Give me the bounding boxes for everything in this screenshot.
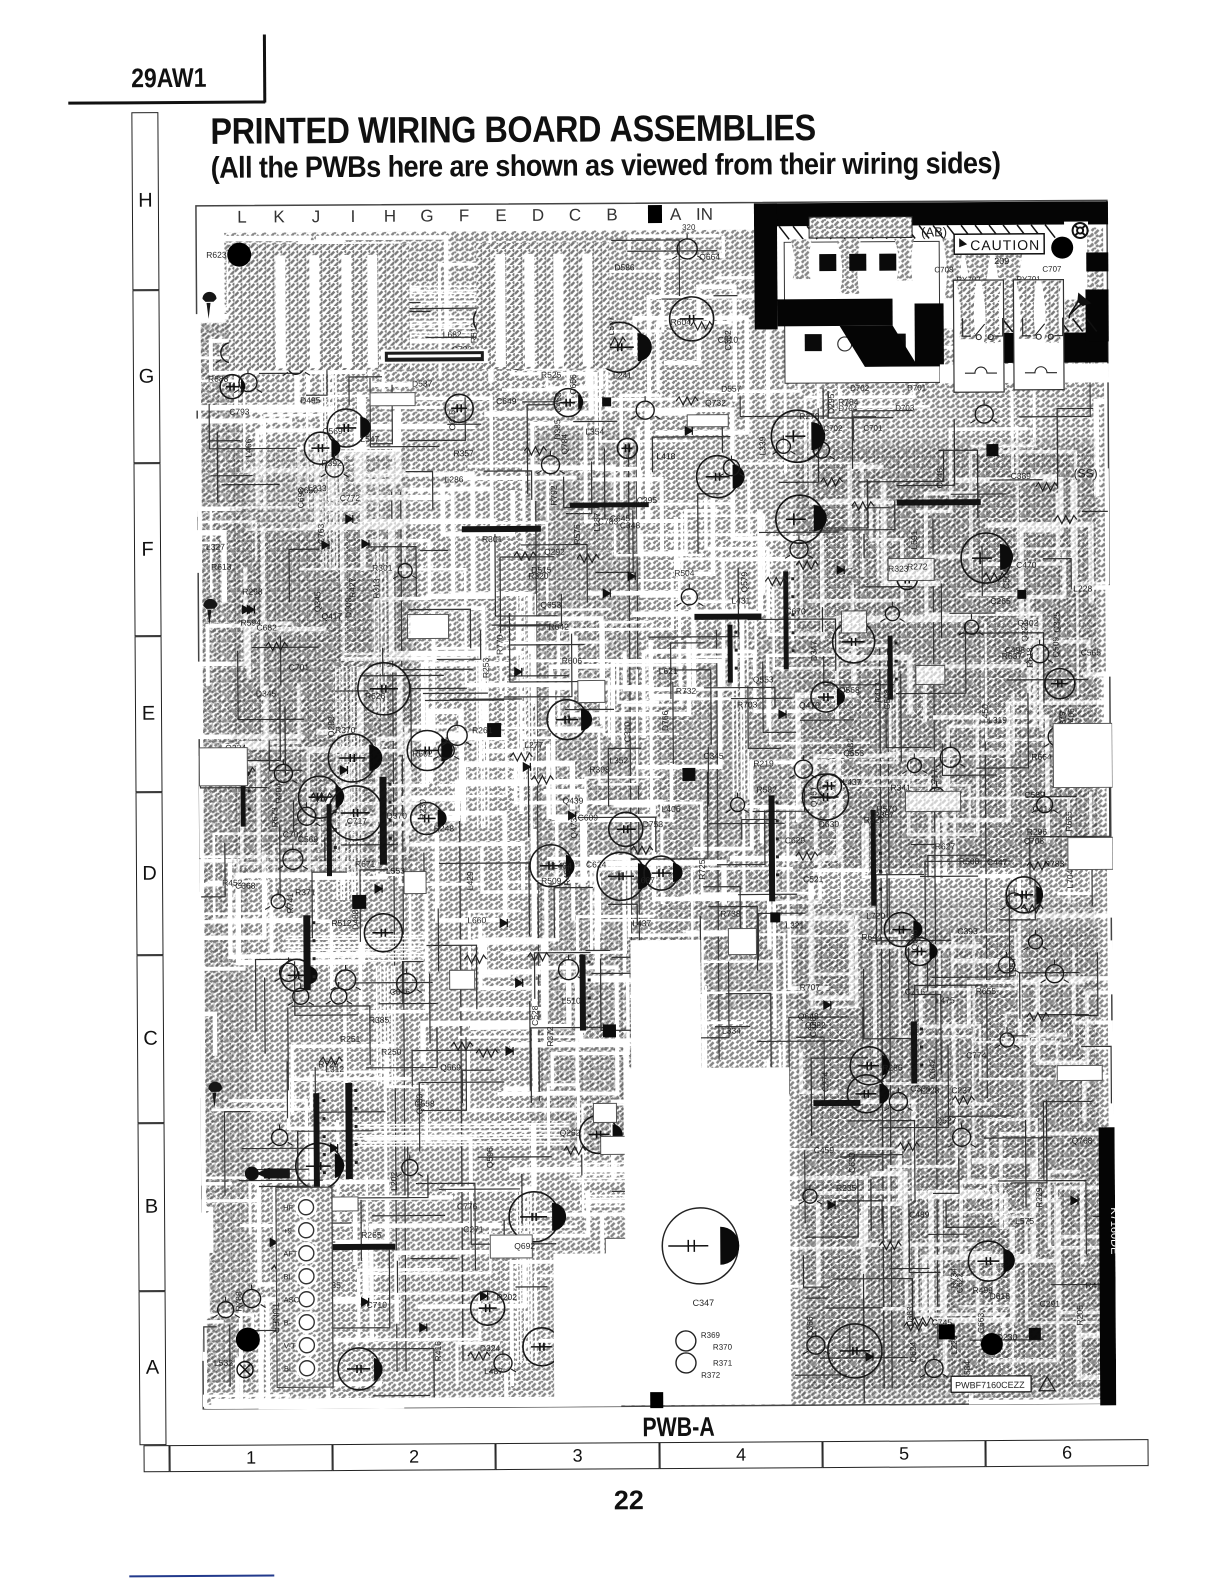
svg-text:F: F xyxy=(459,206,470,225)
svg-text:C569: C569 xyxy=(322,426,343,436)
svg-text:R725: R725 xyxy=(318,1059,339,1069)
svg-text:R623: R623 xyxy=(206,250,227,260)
svg-text:Q596: Q596 xyxy=(485,1147,495,1168)
svg-text:D488: D488 xyxy=(350,909,360,930)
svg-text:R602: R602 xyxy=(412,748,433,758)
svg-text:L354: L354 xyxy=(585,426,604,436)
svg-text:R261: R261 xyxy=(472,725,493,735)
svg-text:C609: C609 xyxy=(578,812,599,822)
svg-text:ASC: ASC xyxy=(284,1295,300,1304)
svg-text:B-: B- xyxy=(284,1318,292,1327)
svg-text:V-T: V-T xyxy=(284,1341,296,1350)
svg-text:C701: C701 xyxy=(863,424,883,433)
svg-text:L352: L352 xyxy=(609,755,628,765)
svg-text:A: A xyxy=(670,205,682,224)
svg-text:Q579: Q579 xyxy=(739,571,749,592)
svg-text:+9: +9 xyxy=(283,1226,292,1235)
svg-text:D701: D701 xyxy=(907,383,927,392)
svg-text:Q439: Q439 xyxy=(563,796,584,806)
svg-text:(SS): (SS) xyxy=(1074,466,1098,480)
svg-text:C707: C707 xyxy=(1042,265,1062,274)
svg-text:C783: C783 xyxy=(598,516,619,526)
svg-text:R576: R576 xyxy=(572,524,582,545)
svg-text:R452: R452 xyxy=(222,878,243,888)
svg-text:C347: C347 xyxy=(693,1298,715,1308)
svg-text:HF: HF xyxy=(283,1203,293,1212)
svg-text:R525: R525 xyxy=(541,370,562,380)
svg-text:R369: R369 xyxy=(701,1331,721,1340)
svg-text:R357: R357 xyxy=(453,448,474,458)
svg-text:L286: L286 xyxy=(445,474,464,484)
svg-text:L431: L431 xyxy=(731,596,750,606)
svg-text:R219: R219 xyxy=(753,758,774,768)
svg-text:R250: R250 xyxy=(381,1047,402,1057)
svg-text:C793: C793 xyxy=(229,407,250,417)
svg-text:G: G xyxy=(420,206,433,225)
svg-text:L621: L621 xyxy=(659,666,678,676)
svg-text:R606: R606 xyxy=(562,656,583,666)
svg-text:D586: D586 xyxy=(614,262,635,272)
svg-text:R703: R703 xyxy=(737,699,758,709)
svg-text:C382: C382 xyxy=(723,330,733,351)
svg-text:C558: C558 xyxy=(414,1098,435,1108)
svg-text:R248: R248 xyxy=(434,823,455,833)
svg-text:R371: R371 xyxy=(295,887,316,897)
svg-text:209: 209 xyxy=(994,256,1009,266)
svg-text:L202: L202 xyxy=(389,1171,399,1190)
svg-text:R582: R582 xyxy=(756,784,777,794)
svg-text:R688: R688 xyxy=(208,374,229,384)
svg-text:R230: R230 xyxy=(418,799,428,820)
svg-text:R732: R732 xyxy=(676,686,697,696)
svg-text:C710: C710 xyxy=(367,1300,388,1310)
svg-text:L406: L406 xyxy=(662,804,681,814)
svg-text:D324: D324 xyxy=(480,1343,501,1353)
svg-text:L484: L484 xyxy=(553,861,572,871)
svg-text:R504: R504 xyxy=(674,568,695,578)
svg-text:C521: C521 xyxy=(803,874,824,884)
svg-text:C395: C395 xyxy=(637,495,658,505)
svg-text:BL: BL xyxy=(283,1272,292,1281)
svg-text:L687: L687 xyxy=(636,875,655,885)
svg-text:E: E xyxy=(495,206,506,225)
svg-text:R788: R788 xyxy=(234,1291,244,1312)
svg-text:L660: L660 xyxy=(467,915,486,925)
svg-text:C: C xyxy=(569,206,581,225)
svg-text:L327: L327 xyxy=(206,542,225,552)
svg-text:L339: L339 xyxy=(757,436,767,455)
svg-text:D537: D537 xyxy=(412,378,433,388)
svg-text:C271: C271 xyxy=(463,1224,484,1234)
svg-text:D766: D766 xyxy=(660,710,670,731)
svg-text:C615: C615 xyxy=(447,410,457,431)
svg-text:C646: C646 xyxy=(390,987,411,997)
svg-text:Q553: Q553 xyxy=(753,674,774,684)
svg-text:R792: R792 xyxy=(549,485,559,506)
svg-text:Q664: Q664 xyxy=(699,252,720,262)
svg-text:D385: D385 xyxy=(552,419,562,440)
svg-text:K7160DE: K7160DE xyxy=(1108,1207,1116,1254)
svg-text:C624: C624 xyxy=(586,859,607,869)
svg-text:L418: L418 xyxy=(656,451,675,461)
svg-text:L: L xyxy=(237,208,247,227)
svg-text:R725: R725 xyxy=(697,859,707,880)
svg-text:L532: L532 xyxy=(214,1358,233,1368)
svg-text:R770: R770 xyxy=(495,634,505,655)
svg-text:R251: R251 xyxy=(340,1034,361,1044)
svg-text:C776: C776 xyxy=(457,1201,478,1211)
svg-text:R202: R202 xyxy=(497,1292,518,1302)
svg-text:PWBF7160CEZZ: PWBF7160CEZZ xyxy=(955,1380,1025,1390)
svg-text:R738: R738 xyxy=(720,909,741,919)
svg-text:D557: D557 xyxy=(721,384,742,394)
svg-text:L437: L437 xyxy=(632,918,651,928)
svg-text:C708: C708 xyxy=(934,265,954,274)
svg-text:K: K xyxy=(273,207,285,226)
svg-text:J: J xyxy=(312,207,321,226)
svg-text:R642: R642 xyxy=(548,622,569,632)
svg-text:Q732: Q732 xyxy=(705,398,726,408)
svg-text:C528: C528 xyxy=(530,1005,540,1026)
svg-text:D703: D703 xyxy=(895,404,915,413)
svg-text:R372: R372 xyxy=(701,1371,721,1380)
svg-text:Q292: Q292 xyxy=(544,547,565,557)
svg-text:L429: L429 xyxy=(465,871,475,890)
svg-text:L241: L241 xyxy=(613,370,632,380)
svg-text:Q473: Q473 xyxy=(569,818,579,839)
svg-text:I: I xyxy=(351,207,356,226)
svg-text:C649: C649 xyxy=(496,396,517,406)
svg-text:L510: L510 xyxy=(562,996,581,1006)
svg-text:R385: R385 xyxy=(369,1015,390,1025)
svg-text:C345: C345 xyxy=(703,751,724,761)
svg-text:D704: D704 xyxy=(838,404,858,413)
svg-text:R509: R509 xyxy=(541,876,562,886)
svg-text:C468: C468 xyxy=(553,392,563,413)
svg-text:R301: R301 xyxy=(482,534,503,544)
svg-text:R416: R416 xyxy=(433,1341,443,1362)
svg-text:TUNER: TUNER xyxy=(271,1302,281,1334)
svg-text:C310: C310 xyxy=(622,722,632,743)
svg-text:D495: D495 xyxy=(300,395,321,405)
svg-text:B: B xyxy=(606,205,617,224)
svg-text:D702: D702 xyxy=(850,384,870,393)
svg-text:L547: L547 xyxy=(360,434,379,444)
svg-text:Q262: Q262 xyxy=(560,1128,581,1138)
svg-text:Q569: Q569 xyxy=(440,1062,461,1072)
svg-text:L704: L704 xyxy=(1065,869,1075,888)
svg-text:D: D xyxy=(532,206,544,225)
svg-text:C348: C348 xyxy=(620,520,641,530)
svg-text:R253: R253 xyxy=(481,658,491,679)
svg-text:AFT: AFT xyxy=(283,1249,298,1258)
svg-text:(AB): (AB) xyxy=(921,224,947,239)
svg-text:H: H xyxy=(384,207,396,226)
svg-text:BL: BL xyxy=(284,1364,293,1373)
svg-text:R604: R604 xyxy=(671,317,692,327)
svg-text:C656: C656 xyxy=(568,374,578,395)
svg-text:R370: R370 xyxy=(713,1343,733,1352)
svg-text:R371: R371 xyxy=(713,1359,733,1368)
svg-text:320: 320 xyxy=(682,223,696,232)
svg-text:R265: R265 xyxy=(361,1230,382,1240)
svg-text:Q692: Q692 xyxy=(514,1241,535,1251)
svg-text:R372: R372 xyxy=(545,1026,555,1047)
svg-text:R741: R741 xyxy=(285,893,295,914)
svg-text:Q653: Q653 xyxy=(540,600,561,610)
svg-text:D295: D295 xyxy=(826,393,836,414)
svg-text:C702: C702 xyxy=(823,424,843,433)
svg-text:R320: R320 xyxy=(528,571,549,581)
svg-text:L487: L487 xyxy=(484,1366,503,1376)
svg-text:R613: R613 xyxy=(211,562,232,572)
svg-text:L682: L682 xyxy=(443,329,462,339)
svg-text:L334: L334 xyxy=(722,1026,741,1036)
svg-text:IN: IN xyxy=(696,205,713,224)
svg-text:R308: R308 xyxy=(589,764,610,774)
svg-text:D753: D753 xyxy=(643,819,664,829)
svg-text:R512: R512 xyxy=(331,918,352,928)
svg-text:CAUTION: CAUTION xyxy=(970,237,1040,253)
svg-text:L277: L277 xyxy=(524,740,543,750)
